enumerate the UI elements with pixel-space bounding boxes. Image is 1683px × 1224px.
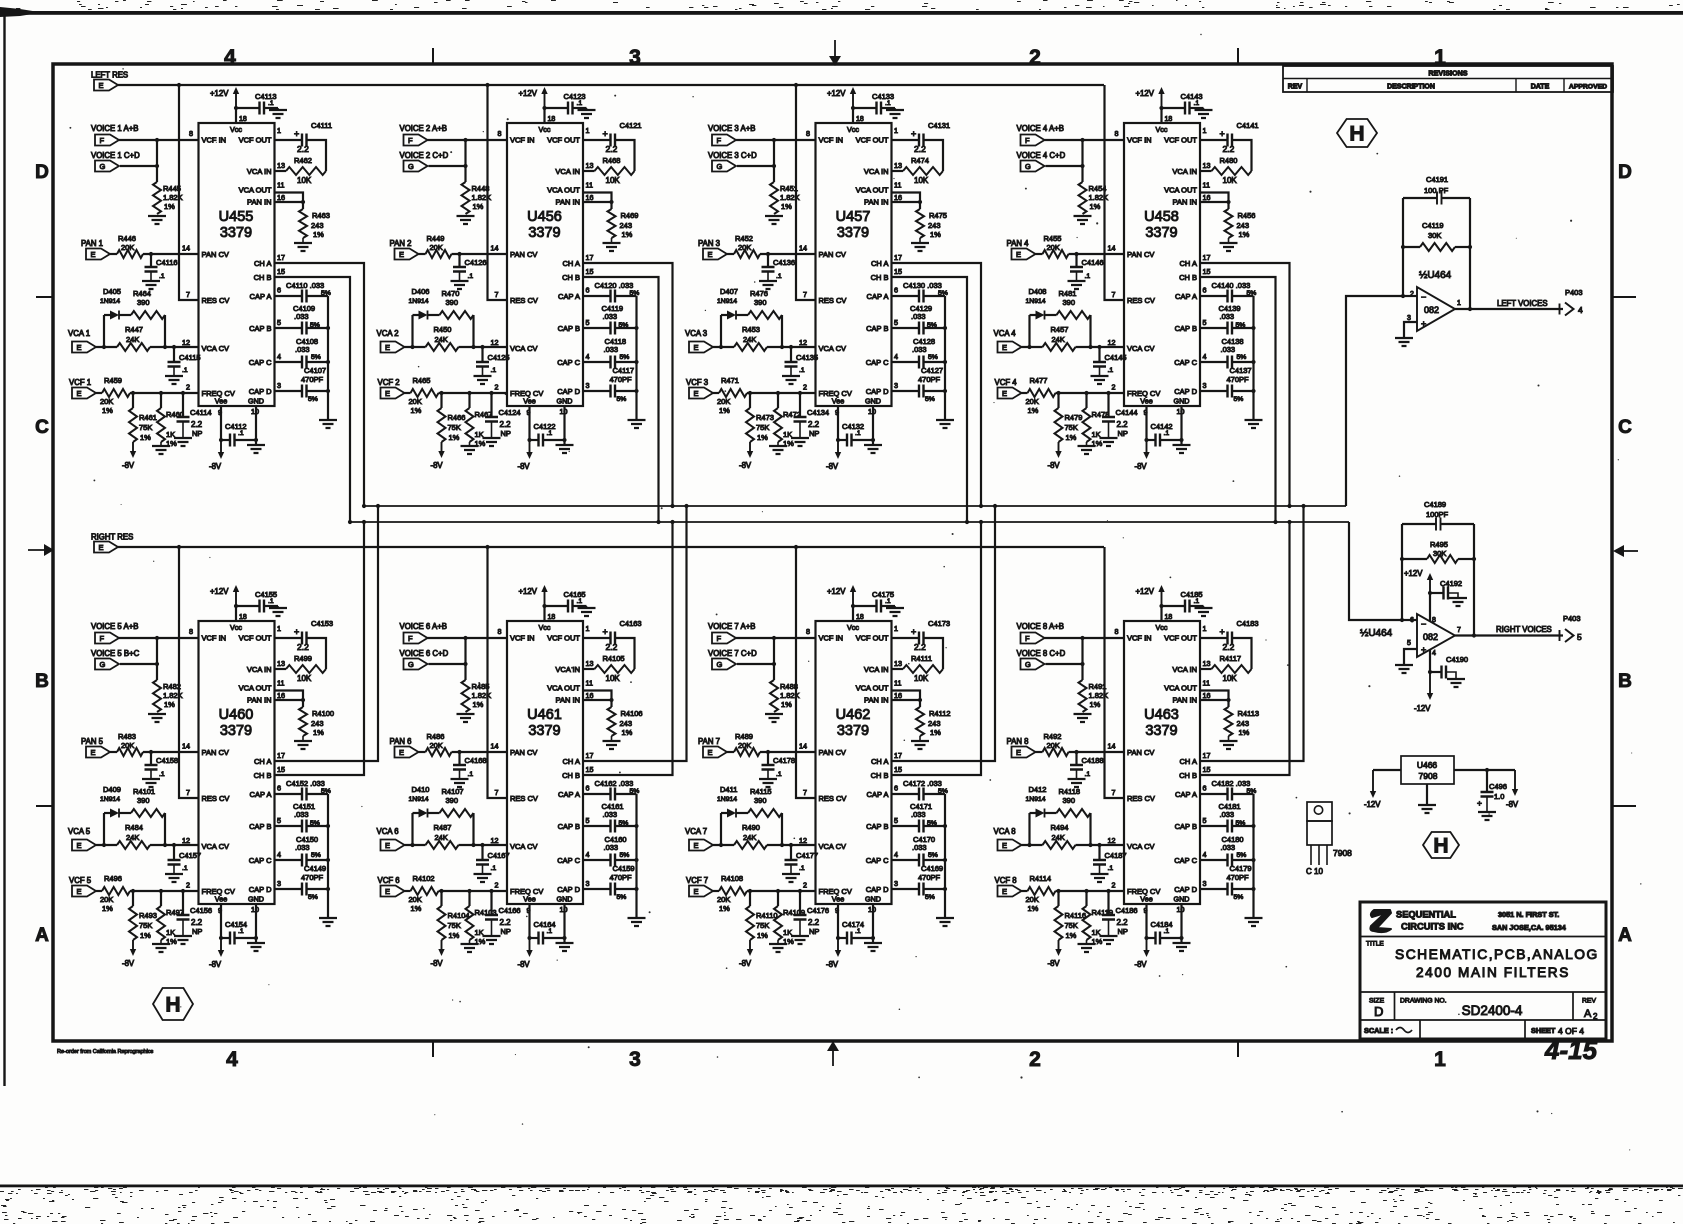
svg-text:F: F <box>408 136 413 145</box>
svg-text:SCALE :: SCALE : <box>1364 1026 1393 1035</box>
svg-text:Vcc: Vcc <box>1156 623 1168 632</box>
svg-text:CAP D: CAP D <box>557 387 580 396</box>
svg-text:Vcc: Vcc <box>539 623 551 632</box>
ground <box>247 445 265 453</box>
svg-text:E: E <box>694 841 699 850</box>
svg-text:C 10: C 10 <box>1306 867 1323 876</box>
svg-text:4-15: 4-15 <box>1544 1035 1598 1065</box>
wire PAN CV <box>452 751 508 753</box>
svg-text:243: 243 <box>1237 719 1250 728</box>
wire RES CV from RIGHT RES line <box>179 547 199 798</box>
svg-text:1N914: 1N914 <box>409 796 429 803</box>
ground <box>1447 679 1465 687</box>
svg-text:13: 13 <box>894 161 902 170</box>
junction <box>362 504 366 508</box>
svg-text:VCA CV: VCA CV <box>202 842 230 851</box>
svg-text:75K: 75K <box>1065 423 1078 432</box>
junction <box>1080 138 1084 142</box>
svg-text:R449: R449 <box>427 234 445 243</box>
svg-text:5%: 5% <box>1247 788 1257 795</box>
svg-text:2.2: 2.2 <box>1223 144 1235 154</box>
svg-text:VCA 7: VCA 7 <box>685 827 707 836</box>
svg-text:+: + <box>1220 627 1225 637</box>
svg-text:E: E <box>91 748 96 757</box>
resistor R451 1.82K 1% <box>770 182 778 214</box>
resistor R453 24K (vca cv) <box>713 346 734 348</box>
svg-text:C4158: C4158 <box>156 756 178 765</box>
svg-text:1%: 1% <box>930 230 941 239</box>
svg-text:CAP A: CAP A <box>1175 292 1197 301</box>
svg-text:1%: 1% <box>781 700 792 709</box>
ground <box>302 736 304 741</box>
capacitor C4183 2.2 (VCF OUT coupling) <box>1200 637 1228 639</box>
svg-text:E: E <box>708 250 713 259</box>
svg-text:8: 8 <box>498 627 502 636</box>
svg-text:G: G <box>717 660 723 669</box>
junction <box>1056 391 1060 395</box>
svg-text:14: 14 <box>182 742 190 751</box>
svg-text:+: + <box>294 129 299 139</box>
svg-text:+12V: +12V <box>827 89 846 98</box>
junction <box>410 345 414 349</box>
svg-text:14: 14 <box>799 244 807 253</box>
svg-text:15: 15 <box>277 765 285 774</box>
ground <box>165 874 183 882</box>
junction <box>1027 843 1031 847</box>
wire VCA OUT to PAN IN <box>1200 691 1229 701</box>
svg-text:1: 1 <box>894 126 898 135</box>
svg-text:24K: 24K <box>126 335 139 344</box>
svg-text:CAP C: CAP C <box>249 856 272 865</box>
svg-text:C4119: C4119 <box>1422 221 1444 230</box>
ground <box>1478 812 1496 820</box>
svg-text:U456: U456 <box>527 209 562 225</box>
svg-text:75K: 75K <box>448 423 461 432</box>
svg-text:VCF IN: VCF IN <box>819 634 844 643</box>
svg-text:.033: .033 <box>604 843 619 852</box>
zone tick left D/C <box>36 296 53 298</box>
resistor R457 24K (vca cv) <box>1022 346 1043 348</box>
svg-text:+: + <box>1421 319 1426 329</box>
capacitor C4185 .1 <box>1162 605 1185 607</box>
svg-text:R490: R490 <box>742 823 760 832</box>
resistor R485 1.82K 1% <box>462 680 470 712</box>
svg-text:6: 6 <box>277 784 281 793</box>
svg-text:5: 5 <box>894 318 898 327</box>
svg-text:P403: P403 <box>1563 614 1581 623</box>
wire timing cap bus <box>1252 296 1254 420</box>
svg-text:7: 7 <box>803 290 807 299</box>
svg-text:F: F <box>100 634 105 643</box>
svg-text:5: 5 <box>277 318 281 327</box>
svg-text:7: 7 <box>495 290 499 299</box>
svg-text:C4174: C4174 <box>842 920 864 929</box>
wire timing cap bus <box>327 794 329 918</box>
svg-text:CAP A: CAP A <box>867 292 889 301</box>
junction <box>979 520 983 524</box>
junction <box>836 936 840 940</box>
svg-text:24K: 24K <box>435 335 448 344</box>
junction <box>527 438 531 442</box>
svg-text:20K: 20K <box>409 397 422 406</box>
power -8V (Vee) <box>837 938 839 951</box>
svg-text:R476: R476 <box>750 289 768 298</box>
wire FREQ CV <box>747 890 816 892</box>
svg-text:3379: 3379 <box>528 225 560 241</box>
resistor R468 10K (VCA IN) <box>583 170 595 172</box>
ground <box>474 874 492 882</box>
svg-text:390: 390 <box>754 796 767 805</box>
wire feedback left <box>1403 198 1470 309</box>
wire Vee pin 9 <box>220 406 222 440</box>
power -8V <box>441 940 443 950</box>
svg-text:R463: R463 <box>312 211 330 220</box>
capacitor C4133 .1 <box>853 107 876 109</box>
ground <box>1449 598 1467 606</box>
svg-text:2: 2 <box>1112 881 1116 890</box>
svg-text:R453: R453 <box>742 325 760 334</box>
svg-text:VCA CV: VCA CV <box>202 344 230 353</box>
svg-text:11: 11 <box>1203 181 1210 190</box>
svg-text:CAP C: CAP C <box>557 856 580 865</box>
svg-text:14: 14 <box>491 244 499 253</box>
svg-text:5%: 5% <box>310 322 320 329</box>
svg-text:+12V: +12V <box>210 587 229 596</box>
svg-text:R4110: R4110 <box>756 911 778 920</box>
wire PAN CV <box>760 751 816 753</box>
IC U457 3379 (filter chip) <box>816 123 892 406</box>
svg-text:E: E <box>77 343 82 352</box>
svg-text:C4120 .033: C4120 .033 <box>595 281 634 290</box>
svg-text:-8V: -8V <box>122 959 135 968</box>
svg-text:R471: R471 <box>721 376 739 385</box>
svg-text:C4133: C4133 <box>872 92 894 101</box>
svg-text:10K: 10K <box>1223 176 1238 185</box>
svg-text:CH A: CH A <box>1179 259 1197 268</box>
power -8V <box>132 442 134 452</box>
svg-text:C4156: C4156 <box>190 906 212 915</box>
svg-text:C4121: C4121 <box>620 121 642 130</box>
wire Vee pin 9 <box>837 406 839 440</box>
wire CH B output <box>1200 277 1276 522</box>
svg-text:1N914: 1N914 <box>1026 298 1046 305</box>
svg-text:C4166: C4166 <box>499 906 521 915</box>
svg-text:+: + <box>1220 129 1225 139</box>
ground <box>451 779 469 787</box>
svg-text:13: 13 <box>894 659 902 668</box>
wire Vcc pin 18 <box>543 108 545 123</box>
svg-text:E: E <box>1016 748 1021 757</box>
ground <box>759 281 777 289</box>
svg-text:CAP B: CAP B <box>249 324 271 333</box>
wire diode loop <box>1030 813 1091 845</box>
resistor R4119 1K 1% <box>1085 891 1087 906</box>
svg-text:11: 11 <box>277 181 284 190</box>
svg-text:5%: 5% <box>308 396 318 403</box>
ground <box>451 281 469 289</box>
svg-text:.033: .033 <box>911 810 926 819</box>
svg-text:.033: .033 <box>912 843 927 852</box>
svg-text:20K: 20K <box>409 895 422 904</box>
svg-text:F: F <box>100 136 105 145</box>
svg-text:−: − <box>1421 619 1426 629</box>
svg-text:PAN IN: PAN IN <box>1173 198 1197 207</box>
svg-text:U458: U458 <box>1144 209 1179 225</box>
svg-text:C4127: C4127 <box>921 366 943 375</box>
capacitor C4144 2.2 NP <box>1107 393 1109 417</box>
svg-text:.1: .1 <box>159 273 165 280</box>
svg-text:7: 7 <box>1457 627 1461 634</box>
svg-text:3: 3 <box>586 879 590 888</box>
svg-text:E: E <box>399 748 404 757</box>
junction <box>965 520 969 524</box>
svg-text:VCA 3: VCA 3 <box>685 329 707 338</box>
svg-text:VCF IN: VCF IN <box>202 634 227 643</box>
svg-text:1%: 1% <box>164 202 175 211</box>
svg-text:.033: .033 <box>912 345 927 354</box>
wire timing cap bus <box>1252 794 1254 918</box>
svg-text:-8V: -8V <box>826 462 839 471</box>
svg-text:+: + <box>911 627 916 637</box>
wire CH B output <box>583 277 659 522</box>
capacitor C4123 .1 <box>545 107 568 109</box>
junction <box>609 698 613 702</box>
IC U463 3379 (filter chip) <box>1124 621 1200 904</box>
svg-text:+: + <box>1477 798 1482 808</box>
ground <box>1068 281 1086 289</box>
power -8V <box>1058 442 1060 452</box>
svg-text:1: 1 <box>277 624 281 633</box>
svg-text:R489: R489 <box>735 732 753 741</box>
wire Vcc pin 18 <box>235 606 237 621</box>
svg-text:390: 390 <box>754 298 767 307</box>
junction <box>871 936 875 940</box>
svg-text:E: E <box>694 887 699 896</box>
svg-text:VOICE 2 C+D: VOICE 2 C+D <box>400 151 449 160</box>
svg-text:VOICE 1 A+B: VOICE 1 A+B <box>91 124 138 133</box>
svg-text:VCA 6: VCA 6 <box>377 827 399 836</box>
svg-text:Vcc: Vcc <box>847 623 859 632</box>
svg-text:C4141: C4141 <box>1237 121 1259 130</box>
svg-text:2.2: 2.2 <box>500 420 512 429</box>
wire op-amp inputs right <box>1402 619 1417 621</box>
wire CH B output <box>275 522 365 775</box>
svg-text:VCA CV: VCA CV <box>510 344 538 353</box>
svg-text:CH B: CH B <box>871 771 889 780</box>
svg-text:GND: GND <box>248 397 264 406</box>
resistor R487 24K (vca cv) <box>405 844 426 846</box>
svg-text:.1: .1 <box>799 367 805 374</box>
svg-text:C4111: C4111 <box>311 121 332 130</box>
junction <box>562 936 566 940</box>
svg-text:R462: R462 <box>294 156 312 165</box>
junction <box>1144 936 1148 940</box>
svg-text:C4117: C4117 <box>613 366 635 375</box>
junction <box>254 438 258 442</box>
ground <box>936 420 954 428</box>
svg-text:7908: 7908 <box>1333 848 1352 858</box>
svg-text:1%: 1% <box>1090 202 1101 211</box>
svg-text:-8V: -8V <box>1048 959 1061 968</box>
svg-text:VOICE 7 A+B: VOICE 7 A+B <box>708 622 755 631</box>
svg-text:R450: R450 <box>434 325 452 334</box>
power -8V (Vee) <box>837 440 839 453</box>
svg-text:CAP C: CAP C <box>866 856 889 865</box>
svg-text:R481: R481 <box>1059 289 1077 298</box>
resistor R4116 75K 1% <box>1057 891 1059 906</box>
svg-text:16: 16 <box>894 691 902 700</box>
svg-text:2: 2 <box>803 383 807 392</box>
svg-text:6: 6 <box>1203 784 1207 793</box>
svg-text:C4185: C4185 <box>1181 590 1203 599</box>
svg-text:PAN CV: PAN CV <box>1127 250 1154 259</box>
svg-text:CH B: CH B <box>562 273 580 282</box>
svg-text:7: 7 <box>495 788 499 797</box>
svg-text:470PF: 470PF <box>610 375 633 384</box>
svg-text:C4137: C4137 <box>1230 366 1252 375</box>
svg-text:3379: 3379 <box>837 225 869 241</box>
wire diode loop <box>413 813 474 845</box>
capacitor C4178 .1 (pan cv) <box>767 752 769 765</box>
wire CH A output <box>275 506 379 761</box>
capacitor C4150 (timing cap) <box>275 859 303 861</box>
svg-text:.033: .033 <box>295 345 310 354</box>
svg-text:11: 11 <box>894 679 901 688</box>
svg-text:15: 15 <box>277 267 285 276</box>
resistor R469 243 1% (PAN IN) <box>610 202 612 209</box>
svg-text:10K: 10K <box>1223 674 1238 683</box>
ground <box>148 714 166 722</box>
svg-text:PAN IN: PAN IN <box>556 696 580 705</box>
svg-text:C4177: C4177 <box>796 851 818 860</box>
svg-text:B: B <box>35 671 49 692</box>
svg-text:U455: U455 <box>219 209 254 225</box>
svg-text:R477: R477 <box>1030 376 1048 385</box>
svg-text:8: 8 <box>189 627 193 636</box>
svg-text:5%: 5% <box>630 290 640 297</box>
svg-text:CAP B: CAP B <box>1175 822 1197 831</box>
ground <box>1173 445 1191 453</box>
svg-text:.1: .1 <box>238 430 244 437</box>
wire VCA OUT to PAN IN <box>583 691 612 701</box>
svg-text:.1: .1 <box>855 430 861 437</box>
wire VCA CV <box>150 346 199 348</box>
capacitor C4165 .1 <box>545 605 568 607</box>
capacitor C4130 (timing cap) <box>892 295 920 297</box>
capacitor C4169 (timing cap) <box>892 888 920 890</box>
ground <box>556 943 574 951</box>
svg-text:16: 16 <box>1203 193 1211 202</box>
svg-text:C4189: C4189 <box>1424 500 1446 509</box>
junction <box>149 252 153 256</box>
svg-text:1: 1 <box>1203 126 1207 135</box>
svg-text:4: 4 <box>277 850 281 859</box>
svg-text:VCA OUT: VCA OUT <box>1164 684 1197 693</box>
svg-text:-8V: -8V <box>1506 800 1519 809</box>
svg-text:Vcc: Vcc <box>230 623 242 632</box>
capacitor C4158 .1 (pan cv) <box>150 752 152 765</box>
svg-text:1%: 1% <box>102 406 113 415</box>
svg-text:12: 12 <box>1108 338 1116 347</box>
svg-text:1%: 1% <box>140 433 151 442</box>
svg-text:1%: 1% <box>164 700 175 709</box>
junction <box>1401 245 1405 249</box>
svg-text:4: 4 <box>586 850 590 859</box>
capacitor C4111 2.2 (VCF OUT coupling) <box>275 139 303 141</box>
ground <box>556 445 574 453</box>
svg-text:+12V: +12V <box>1136 587 1155 596</box>
svg-text:8: 8 <box>1115 129 1119 138</box>
svg-text:E: E <box>1002 887 1007 896</box>
svg-text:C4192: C4192 <box>1440 579 1462 588</box>
junction <box>102 843 106 847</box>
svg-text:C4122: C4122 <box>534 422 556 431</box>
wire Vee pin 9 <box>528 904 530 938</box>
capacitor C4190 .1 <box>1430 671 1441 673</box>
junction <box>177 545 181 549</box>
svg-text:14: 14 <box>1108 742 1116 751</box>
junction <box>1179 936 1183 940</box>
wire regulator ground <box>1426 784 1428 805</box>
svg-text:10K: 10K <box>914 674 929 683</box>
svg-text:REV: REV <box>1582 998 1596 1005</box>
svg-text:VCA CV: VCA CV <box>1127 842 1155 851</box>
border frame <box>53 64 1612 1041</box>
svg-text:CH A: CH A <box>871 757 889 766</box>
svg-text:470PF: 470PF <box>610 873 633 882</box>
wire PAN CV <box>760 253 816 255</box>
svg-text:C4116: C4116 <box>156 258 178 267</box>
ground <box>142 779 160 787</box>
svg-text:VCA IN: VCA IN <box>247 665 272 674</box>
junction <box>634 326 638 330</box>
resistor R490 24K (vca cv) <box>713 844 734 846</box>
svg-text:470PF: 470PF <box>301 873 324 882</box>
svg-text:.033: .033 <box>603 810 618 819</box>
svg-text:1: 1 <box>894 624 898 633</box>
svg-text:10K: 10K <box>297 674 312 683</box>
wire diode loop <box>104 315 165 347</box>
ground <box>765 216 783 224</box>
svg-text:17: 17 <box>586 751 594 760</box>
svg-text:470PF: 470PF <box>1227 375 1250 384</box>
svg-text:16: 16 <box>586 193 594 202</box>
capacitor C4161 (timing cap) <box>583 825 611 827</box>
svg-text:10K: 10K <box>297 176 312 185</box>
svg-text:CH B: CH B <box>871 273 889 282</box>
svg-text:20K: 20K <box>430 741 443 750</box>
svg-text:PAN 4: PAN 4 <box>1007 239 1030 248</box>
svg-text:6: 6 <box>894 784 898 793</box>
wire PAN CV <box>143 751 199 753</box>
svg-text:C4191: C4191 <box>1426 175 1448 184</box>
svg-text:16: 16 <box>894 193 902 202</box>
power -8V (Vee) <box>529 938 531 951</box>
svg-text:75K: 75K <box>1065 921 1078 930</box>
junction <box>794 83 798 87</box>
svg-text:C496: C496 <box>1489 782 1507 791</box>
svg-text:CAP C: CAP C <box>1174 358 1197 367</box>
wire VCF IN net <box>119 140 199 182</box>
svg-text:U460: U460 <box>219 707 254 723</box>
svg-text:C4124: C4124 <box>499 408 521 417</box>
svg-text:+12V: +12V <box>1136 89 1155 98</box>
ground <box>1091 874 1109 882</box>
svg-text:75K: 75K <box>756 921 769 930</box>
svg-text:VCF IN: VCF IN <box>1127 634 1152 643</box>
svg-text:243: 243 <box>311 719 324 728</box>
wire CH B output <box>892 522 982 775</box>
